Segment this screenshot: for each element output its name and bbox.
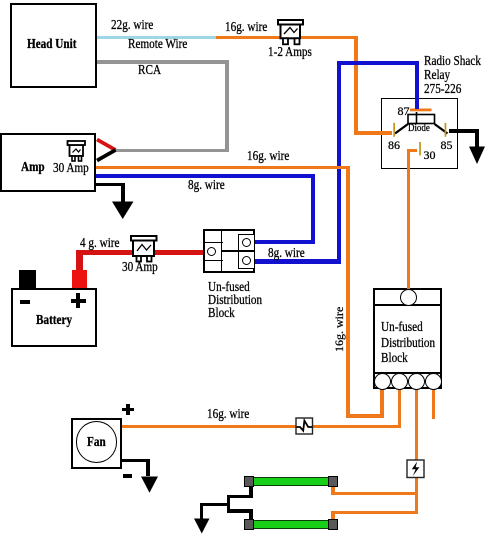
block right cells [238, 234, 255, 270]
wire orange into relay pin 86 [354, 131, 392, 134]
lead to pin 86 [395, 124, 408, 134]
upper speaker (green bar) [252, 477, 329, 486]
pin 86 bar [393, 123, 395, 137]
wire RCA gray vertical [225, 60, 229, 152]
RCA connector chevron at amp [95, 136, 119, 163]
pin label 86 [388, 139, 400, 151]
terminal circle left [207, 247, 216, 256]
pin 85 bar [445, 123, 447, 137]
wire orange bridge to block stub [346, 414, 383, 418]
wire 8g blue from block lower terminal (horizontal) [255, 259, 341, 263]
label Un-fused Distribution Block (right) [381, 321, 423, 335]
value label 1-2 Amps [268, 46, 312, 60]
block left cell lines [203, 242, 223, 244]
vertical 16g wire label [333, 306, 345, 351]
label Amp [21, 161, 45, 175]
label Battery [36, 314, 72, 328]
ground arrow right of relay [469, 146, 486, 165]
wire black speaker jumper upper horizontal [227, 495, 253, 498]
label Un-fused Distribution Block (left) [208, 281, 250, 295]
bottom divider [373, 372, 442, 374]
wire label 22g. wire [111, 19, 153, 33]
battery positive terminal [72, 270, 88, 288]
terminal circle right upper [242, 238, 252, 248]
pin label 85 [441, 139, 453, 151]
wire orange branch to lower speaker (horizontal) [331, 511, 418, 514]
amp box [0, 133, 96, 192]
wire 8g blue drop into relay pin 87 [415, 61, 419, 109]
wire orange stub 4 under block [432, 387, 436, 419]
wire 16g orange vertical from pin 30 to distribution block [407, 149, 411, 289]
fuse 30 Amp on 4g wire [129, 234, 160, 264]
wire 16g orange from fan + [122, 425, 401, 428]
battery plus symbol [71, 299, 87, 303]
wire RCA gray horizontal into amp [114, 149, 229, 152]
relay internals [381, 98, 458, 167]
wire RCA gray horizontal from head unit [97, 60, 229, 64]
wire label Remote Wire [128, 38, 187, 52]
wire orange stub down to lower speaker cap [331, 511, 335, 521]
wire 8g blue into block upper terminal [255, 240, 315, 245]
fan circle [76, 421, 118, 462]
wire black speaker ground vertical [200, 503, 204, 520]
wire label RCA [138, 64, 161, 78]
wire label 8g. wire (amp) [188, 179, 225, 193]
label Fan [87, 436, 106, 450]
wire black relay ground vertical [475, 129, 479, 147]
wire 8g blue vertical down to block [311, 174, 315, 244]
wire orange branch to upper speaker (horizontal) [331, 492, 418, 495]
wire black speaker jumper lower horizontal [227, 509, 253, 512]
inline fuse (lightning) on speaker wire [406, 459, 425, 478]
wire 16g orange from amp (horizontal) [96, 166, 350, 170]
label Head Unit [27, 38, 76, 52]
wire 16g orange from remote splice to relay (horizontal top) [216, 36, 358, 40]
wire 8g blue from amp (horizontal) [96, 174, 315, 178]
battery minus symbol [20, 300, 30, 304]
pin label 30 [424, 149, 436, 161]
lead to pin 85 [435, 124, 448, 134]
value label 30 Amp (battery fuse) [122, 261, 158, 275]
wire orange from relay pin 30 (short horizontal) [407, 149, 418, 152]
wire 16g orange vertical down right of fuse [354, 36, 358, 135]
top terminal circle [400, 289, 417, 306]
pin 30 bar [419, 142, 421, 155]
wire orange stub 1 under block [380, 387, 384, 418]
wire orange stub up to upper speaker cap [331, 487, 335, 496]
inline fuse (zigzag) on fan wire [295, 417, 313, 435]
fuse 1-2 Amps on remote wire [276, 18, 306, 47]
battery box [11, 288, 98, 348]
wire black relay pin 85 to ground (horizontal) [449, 129, 479, 133]
wire black speaker jumper vertical [227, 495, 230, 513]
top divider [373, 304, 442, 306]
right un-fused distribution block [373, 288, 442, 389]
wire label 16g. wire (fan) [207, 408, 249, 422]
terminal circle right lower [242, 256, 252, 266]
wire 16g orange vertical down to distribution block [346, 166, 350, 418]
fan plus symbol [122, 408, 134, 411]
wire label 16g. wire (amp power) [247, 150, 289, 164]
wire label 8g. wire (block) [268, 247, 305, 261]
wire 4g red horizontal [76, 250, 204, 255]
block divider vertical [221, 229, 223, 273]
wire label 16g. wire (remote) [225, 21, 267, 35]
wire 22g remote (light blue) [97, 36, 216, 39]
fan minus symbol [123, 474, 132, 478]
ground arrow below fan [141, 476, 159, 494]
wire black fan ground vertical [146, 459, 150, 477]
label Diode [408, 124, 430, 135]
left un-fused distribution block [203, 229, 255, 273]
wire 8g blue horizontal top to relay [337, 61, 419, 65]
pin label 87 [398, 105, 410, 117]
wire black fan ground horizontal [122, 459, 150, 462]
wire black amp ground vertical [121, 183, 125, 202]
label Radio Shack Relay 275-226 [424, 55, 481, 69]
wire 8g blue long vertical up to relay [337, 61, 341, 264]
pin 87 bar [410, 109, 432, 112]
wire black speaker ground branch horizontal [200, 503, 230, 506]
head unit box [10, 3, 97, 88]
lower speaker (green bar) [252, 520, 329, 529]
value label 30 Amp (amp fuse) [53, 162, 89, 176]
wire label 4 g. wire [80, 237, 120, 251]
fan box [71, 418, 122, 469]
wire black amp ground horizontal [96, 183, 125, 186]
wire orange stub 2 under block [398, 387, 402, 428]
ground arrow for speakers [194, 518, 211, 535]
bottom terminal circles [374, 373, 391, 390]
battery negative terminal [19, 270, 37, 288]
ground arrow below amp [112, 201, 134, 220]
wire black from upper speaker cap down [249, 487, 252, 498]
relay box [381, 98, 458, 169]
wire 4g red vertical into battery + terminal [76, 250, 83, 272]
block mid line [221, 250, 239, 252]
wire black down to lower speaker cap [249, 509, 252, 520]
wire orange stub 3 vertical down through fuse to speakers [415, 387, 419, 514]
diode body [408, 115, 435, 124]
fuse 30 Amp inside amp box [66, 139, 89, 163]
